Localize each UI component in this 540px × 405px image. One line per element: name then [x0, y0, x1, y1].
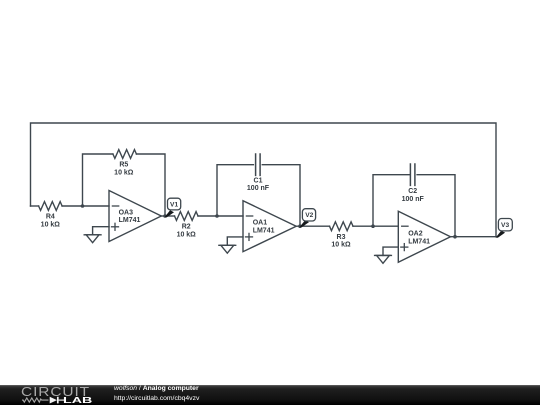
wire C2 loop right leg	[417, 175, 455, 237]
svg-text:100 nF: 100 nF	[402, 196, 425, 203]
wire R4 row left lead	[31, 205, 39, 207]
wire OA2 non-inverting input to ground	[383, 247, 398, 255]
wire R3 to OA2 inverting input	[353, 225, 398, 227]
footer bar	[0, 385, 540, 405]
svg-text:OA3: OA3	[119, 210, 134, 217]
node V1 flag	[165, 198, 181, 217]
svg-text:V3: V3	[501, 222, 509, 229]
wire R2 to OA1 inverting input	[198, 215, 243, 217]
node junction C1 left leg	[215, 214, 219, 218]
node junction R5/R4	[81, 204, 85, 208]
wire OA2 output to V3 corner	[451, 236, 497, 238]
wire OA3 output to OA1 input (R2 row)	[161, 215, 174, 217]
node V2 flag	[300, 209, 316, 228]
wire R5 loop left leg	[83, 154, 113, 206]
svg-text:OA1: OA1	[253, 220, 268, 227]
resistor R3	[330, 222, 354, 249]
wire OA1 output to OA2 input (R3 row)	[296, 225, 329, 227]
svg-text:C2: C2	[408, 188, 417, 195]
wire R4 to OA3 inverting input	[62, 205, 109, 207]
svg-text:100 nF: 100 nF	[247, 185, 270, 192]
node V3 flag	[496, 219, 513, 238]
svg-text:10 kΩ: 10 kΩ	[177, 232, 197, 239]
node junction V1 / R5 leg	[163, 214, 167, 218]
op-amp OA2 LM741	[398, 211, 450, 262]
wire OA3 non-inverting input to ground	[93, 227, 109, 235]
node junction C2 left leg	[371, 224, 375, 228]
svg-text:C1: C1	[254, 177, 263, 184]
wire C1 loop right leg	[262, 165, 300, 227]
resistor R5	[113, 150, 136, 177]
footer caption text	[114, 384, 199, 404]
svg-text:LM741: LM741	[253, 227, 275, 234]
ground (OA3)	[84, 235, 101, 243]
svg-text:V2: V2	[305, 212, 313, 219]
capacitor C2	[402, 164, 425, 203]
svg-text:LM741: LM741	[119, 217, 141, 224]
node junction C2 right leg	[453, 235, 457, 239]
resistor R2	[175, 212, 199, 239]
op-amp OA3 LM741	[109, 191, 161, 242]
wire R5 loop right leg down to OA3 output	[136, 154, 165, 216]
wire C2 loop left leg	[373, 175, 410, 227]
svg-text:10 kΩ: 10 kΩ	[331, 242, 351, 249]
svg-text:10 kΩ: 10 kΩ	[41, 222, 61, 229]
ground (OA2)	[375, 255, 392, 263]
svg-text:V1: V1	[170, 202, 178, 209]
wire OA1 non-inverting input to ground	[227, 237, 243, 245]
svg-text:R4: R4	[46, 214, 55, 221]
svg-text:OA2: OA2	[408, 231, 423, 238]
capacitor C1	[247, 154, 270, 192]
resistor R4	[39, 202, 63, 229]
svg-text:R3: R3	[337, 234, 346, 241]
ground (OA1)	[219, 245, 236, 253]
svg-text:R5: R5	[119, 162, 128, 169]
svg-text:10 kΩ: 10 kΩ	[114, 170, 134, 177]
op-amp OA1 LM741	[243, 201, 296, 252]
wire top feedback V3 to R4 input	[31, 123, 497, 237]
CircuitLab logo	[21, 384, 90, 399]
node junction V2 / C1 right leg	[298, 224, 302, 228]
wire C1 loop left leg	[217, 165, 253, 216]
svg-text:LM741: LM741	[408, 238, 430, 245]
svg-text:R2: R2	[182, 224, 191, 231]
